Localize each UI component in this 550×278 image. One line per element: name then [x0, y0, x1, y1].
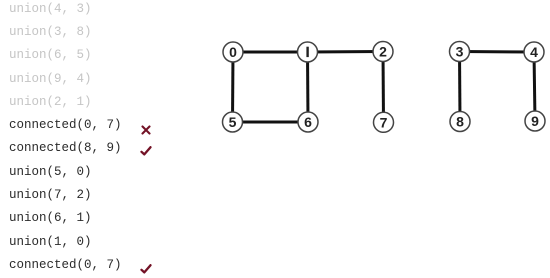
node 4 — [524, 42, 544, 62]
node 6 — [298, 112, 318, 132]
svg-text:5: 5 — [229, 114, 237, 130]
cross mark (connected(0,7) false) — [141, 125, 151, 135]
svg-text:2: 2 — [379, 44, 387, 60]
edge 5-6 — [233, 121, 309, 124]
node 3 — [450, 42, 470, 62]
node 7 — [374, 112, 394, 132]
check mark (connected(8,9) true) — [140, 146, 152, 156]
edge 1-2 — [308, 50, 384, 54]
node 2 — [373, 42, 393, 62]
node 8 — [450, 112, 470, 132]
svg-text:7: 7 — [380, 114, 388, 130]
svg-text:8: 8 — [456, 114, 464, 130]
svg-text:9: 9 — [531, 113, 539, 129]
command list — [9, 0, 122, 277]
node 5 — [223, 112, 243, 132]
svg-text:0: 0 — [229, 44, 237, 60]
node 0 — [223, 42, 243, 62]
edge 3-4 — [460, 50, 535, 54]
edge 4-9 — [534, 52, 535, 121]
edge 2-7 — [382, 52, 386, 123]
check mark (connected(0,7) true) — [140, 264, 152, 274]
node 9 — [525, 111, 545, 131]
edge 1-6 — [306, 52, 310, 122]
svg-text:3: 3 — [456, 44, 464, 60]
svg-text:6: 6 — [304, 114, 312, 130]
node 1 — [298, 42, 318, 62]
edge 0-5 — [231, 52, 235, 122]
edge 0-1 — [233, 51, 308, 54]
edge 3-8 — [458, 52, 462, 122]
svg-text:4: 4 — [530, 44, 538, 60]
